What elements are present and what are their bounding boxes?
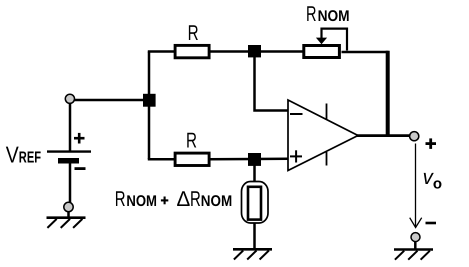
svg-text:R: R [188,21,199,45]
svg-text:NOM: NOM [201,193,232,210]
svg-text:R: R [306,2,317,26]
svg-text:NOM: NOM [318,8,350,25]
svg-text:V: V [6,142,20,168]
svg-text:R: R [186,129,197,153]
svg-text:REF: REF [19,150,41,167]
svg-text:o: o [433,176,442,193]
svg-text:Δ: Δ [177,187,191,211]
svg-text:R: R [190,187,201,211]
svg-text:NOM: NOM [126,193,157,210]
svg-text:R: R [115,187,126,211]
